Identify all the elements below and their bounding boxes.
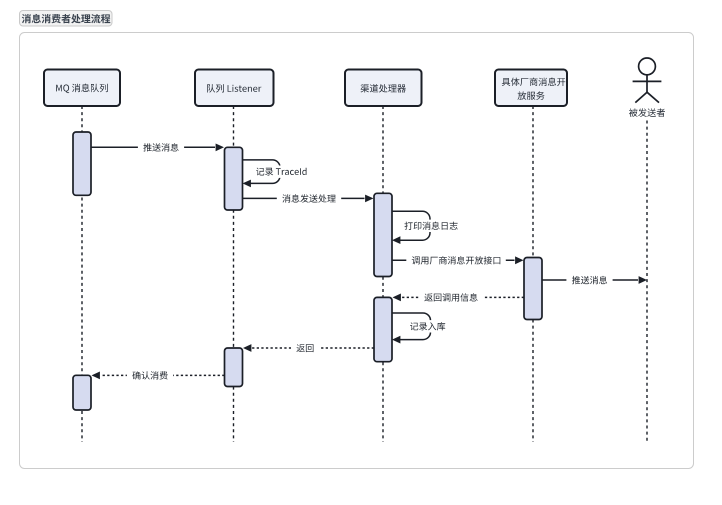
return message 确认消费 (Listener→MQ) [101,374,225,376]
message 推送消息 (MQ→Listener) [91,146,215,148]
lifeline of 队列 Listener [233,106,235,442]
activation bar Listener bar 2 [225,348,243,387]
lifeline of 具体厂商消息开放服务 [532,106,534,442]
activation bar MQ bar 2 [73,375,91,410]
participant 渠道处理器 [345,70,422,107]
return message 返回调用信息 (具体厂商→渠道处理器) [402,296,525,298]
lifeline of 被发送者(actor) [646,121,648,444]
message 推送消息 (具体厂商→被发送者) [542,279,638,281]
activation bar 渠道处理器 bar 2 [374,297,392,361]
participant 具体厂商消息开放服务 [495,70,567,107]
lifeline of MQ 消息队列 [81,106,83,442]
self message 打印消息日志 (渠道处理器 self) [392,211,430,240]
participant MQ 消息队列 [44,70,120,107]
lifeline of 渠道处理器 [382,106,384,442]
return message 返回 (渠道处理器→Listener) [252,347,374,349]
title text 消息消费者处理流程 [22,14,111,23]
diagram title box [20,11,113,27]
self message 记录 TraceId (Listener self) [243,160,281,184]
activation bar 具体厂商 bar [524,258,542,320]
actor 被发送者 (stick figure) [633,58,662,103]
message 调用厂商消息开放接口 (渠道处理器→具体厂商) [392,259,515,261]
activation bar MQ bar 1 [73,132,91,195]
message 消息发送处理 (Listener→渠道处理器) [243,197,365,199]
activation bar Listener bar 1 [225,147,243,210]
participant 队列 Listener [195,70,274,107]
actor label 被发送者 [629,108,665,117]
self message 记录入库 (渠道处理器 self) [392,313,431,340]
activation bar 渠道处理器 bar 1 [374,193,392,276]
